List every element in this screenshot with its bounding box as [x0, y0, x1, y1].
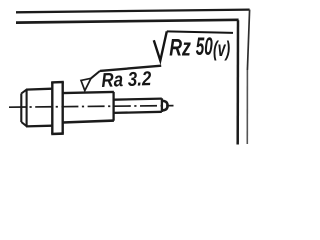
chamfer bottom diagonal [21, 122, 27, 126]
main body bottom edge [63, 121, 114, 123]
main body top edge [63, 92, 114, 93]
svg-text:Rz: Rz [169, 34, 191, 61]
collar left edge [51, 82, 53, 134]
left section top edge [26, 88, 52, 91]
frame inner top line [16, 20, 239, 23]
left section bottom edge [26, 125, 52, 128]
svg-text:Ra 3.2: Ra 3.2 [101, 68, 152, 92]
pin bottom edge [114, 112, 162, 113]
frame outer top line [16, 10, 250, 13]
svg-text:50: 50 [196, 33, 213, 61]
roughness checkmark (Rz, general note) [154, 31, 167, 60]
centerline [9, 106, 174, 108]
frame inner right line [236, 20, 239, 144]
chamfer vertical line [26, 89, 28, 126]
roughness symbol checkmark stroke (Ra) [91, 71, 100, 78]
main body right edge [112, 92, 114, 121]
roughness top bar (Rz note) [167, 31, 233, 33]
collar top edge [51, 81, 64, 84]
collar bottom edge [51, 132, 64, 135]
pin top edge [114, 99, 162, 100]
pin tip dome [162, 101, 167, 111]
frame outer right line [247, 10, 249, 70]
chamfer top diagonal [21, 89, 27, 93]
svg-text:(v): (v) [213, 38, 230, 61]
shaft left face [20, 94, 22, 123]
pin tip vertical line [161, 98, 163, 112]
roughness symbol top bar (Ra) [100, 66, 161, 71]
collar right edge [62, 82, 64, 134]
roughness symbol triangle (Ra) [81, 78, 91, 90]
